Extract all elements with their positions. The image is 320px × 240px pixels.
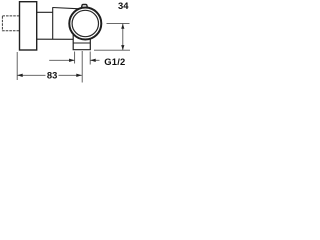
G1/2 dim line left tail [49,59,74,61]
G1/2 right extension line [89,52,91,65]
svg-text:34: 34 [118,0,129,11]
dim 83 line left segment [17,74,45,76]
G1/2 arrow pointing right [69,59,75,62]
outer circle of holder [69,8,101,40]
cylinder rear face edge [52,7,54,39]
outlet centerline [81,51,83,83]
dim 83 arrow pointing right [76,74,82,77]
G1/2 left extension line [74,52,76,64]
outlet nut inner line [73,42,90,44]
dim 83 line right segment [59,74,82,76]
svg-text:83: 83 [47,70,57,81]
dim 34 top extension line [107,22,130,24]
hidden wall inlet (dashed rectangle) [2,16,19,31]
wall flange plate [20,2,37,50]
dim 83 arrow pointing left [17,74,23,77]
body bottom edge [37,38,80,40]
body neck top edge [37,11,53,13]
dim 34 arrow down [121,45,124,50]
svg-text:G1/2: G1/2 [104,56,125,67]
knob tab on top [81,5,87,10]
dim 34 bottom extension line [94,49,130,51]
outlet nut [73,34,90,49]
G1/2 dim line right tail [90,59,99,61]
dim 34 vertical line [122,24,124,50]
dim 34 arrow up [121,24,124,29]
G1/2 arrow pointing left [90,59,96,62]
dim 83 left extension line [16,52,18,80]
inner circle of holder [72,10,98,36]
cylinder top edge [53,8,80,9]
